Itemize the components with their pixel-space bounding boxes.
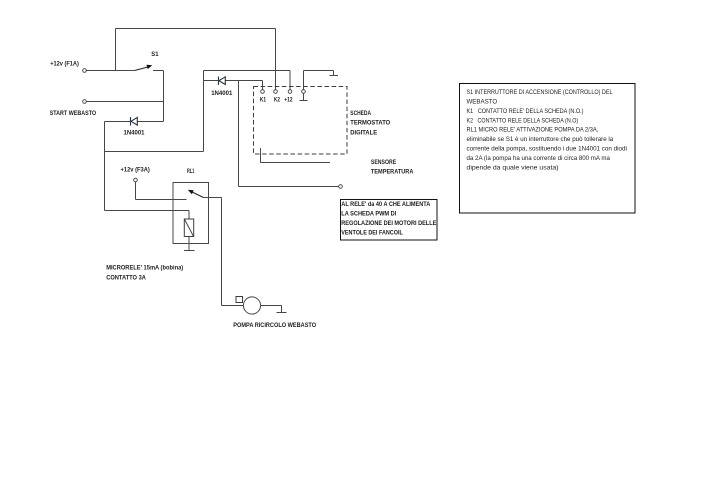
svg-text:DIGITALE: DIGITALE: [350, 129, 377, 136]
svg-text:LA SCHEDA PWM DI: LA SCHEDA PWM DI: [341, 211, 396, 217]
svg-text:WEBASTO: WEBASTO: [467, 99, 498, 105]
svg-text:SCHEDA: SCHEDA: [350, 110, 371, 117]
svg-text:CONTATTO 3A: CONTATTO 3A: [106, 275, 146, 282]
svg-text:REGOLAZIONE DEI MOTORI DELLE: REGOLAZIONE DEI MOTORI DELLE: [341, 221, 436, 227]
svg-text:K2 CONTATTO RELE DELLA SCHED: K2 CONTATTO RELE DELLA SCHEDA (N.O): [467, 118, 579, 124]
svg-text:AL RELE' da 40 A CHE ALIMENTA: AL RELE' da 40 A CHE ALIMENTA: [341, 202, 431, 208]
svg-text:TERMOSTATO: TERMOSTATO: [350, 120, 390, 127]
svg-text:TEMPERATURA: TEMPERATURA: [371, 169, 414, 176]
svg-text:S1 INTERRUTTORE DI ACCENSIONE: S1 INTERRUTTORE DI ACCENSIONE (CONTROLLO…: [467, 90, 614, 96]
svg-text:START WEBASTO: START WEBASTO: [50, 110, 96, 117]
svg-text:+12v (F3A): +12v (F3A): [121, 167, 150, 174]
svg-text:SENSORE: SENSORE: [371, 159, 397, 166]
svg-text:MICRORELE' 15mA (bobina): MICRORELE' 15mA (bobina): [106, 264, 183, 271]
svg-text:K1 CONTATTO RELE' DELLA SCHE: K1 CONTATTO RELE' DELLA SCHEDA (N.O.): [467, 109, 584, 115]
svg-text:RL1 MICRO RELE' ATTIVAZIONE PO: RL1 MICRO RELE' ATTIVAZIONE POMPA DA 2/3…: [467, 128, 599, 134]
svg-text:+12: +12: [284, 97, 293, 103]
svg-text:da 2A (la pompa ha una corrent: da 2A (la pompa ha una corrente di circa…: [467, 156, 611, 162]
svg-text:1N4001: 1N4001: [124, 129, 145, 136]
svg-text:POMPA RICIRCOLO WEBASTO: POMPA RICIRCOLO WEBASTO: [233, 322, 316, 329]
svg-text:S1: S1: [151, 51, 159, 58]
svg-text:K2: K2: [274, 97, 280, 103]
svg-text:corrente della pompa, sostitue: corrente della pompa, sostituendo i due …: [467, 147, 627, 153]
svg-text:RL1: RL1: [187, 168, 195, 175]
svg-text:1N4001: 1N4001: [211, 90, 233, 97]
svg-text:+12v (F1A): +12v (F1A): [50, 60, 79, 67]
svg-text:eliminabile se S1 è un interru: eliminabile se S1 è un interruttore che …: [467, 137, 614, 143]
svg-text:K1: K1: [260, 97, 267, 103]
svg-text:VENTOLE DEI FANCOIL: VENTOLE DEI FANCOIL: [341, 230, 403, 236]
svg-text:dipende da quale viene usata): dipende da quale viene usata): [467, 166, 559, 172]
